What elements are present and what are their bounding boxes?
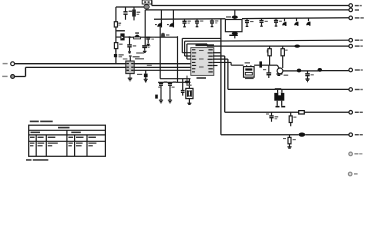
resistor R5 [281, 46, 288, 68]
wire C14/C15 grounds [161, 90, 170, 100]
ferrite bead FB4 [299, 133, 306, 137]
label U1 top [196, 44, 215, 46]
transistor Q4 [294, 18, 298, 26]
IC U1 main [191, 48, 214, 76]
capacitor C13 polarized [137, 70, 148, 82]
connector J12 unused [348, 172, 357, 176]
capacitor C11 [259, 18, 267, 26]
resistor R6 [289, 112, 296, 126]
label C20 value [266, 113, 269, 114]
wire left vertical bus [115, 7, 117, 64]
table subheader A [31, 132, 41, 134]
capacitor C17 series [259, 61, 262, 67]
wire audio out 9 [305, 134, 349, 136]
transistor Q5 [306, 18, 310, 26]
connector J11 unused [349, 152, 363, 156]
IC U2 regulator [126, 55, 134, 73]
capacitor C4 [142, 45, 150, 52]
label L1 value [116, 30, 125, 32]
wire Q6 out [283, 70, 349, 72]
table col heads [30, 137, 96, 138]
capacitor C5 [146, 37, 155, 46]
capacitor C19 to ground [305, 71, 310, 82]
table data row [30, 143, 96, 147]
label U2 note2 [123, 58, 128, 59]
wire RF out to connector [152, 1, 349, 6]
connector J5 [349, 38, 363, 42]
label U1 bottom [197, 77, 207, 79]
ferrite bead FB5 [294, 45, 300, 48]
wire LO cluster rail lower [158, 81, 191, 83]
resistor R2 [114, 43, 122, 53]
capacitor C16 [181, 79, 185, 96]
wire 3V rail to connector [207, 44, 349, 46]
connector J7 [349, 68, 363, 72]
wire rail RX row [154, 18, 349, 20]
capacitor C3 [127, 37, 136, 53]
label R7 value [293, 139, 296, 140]
table header text [58, 127, 70, 129]
capacitor C20 [269, 112, 278, 121]
wire RF rail mid [130, 36, 178, 38]
wire U1 pin to audio bus 1 [213, 19, 299, 135]
capacitor C12 [274, 18, 282, 26]
ground C14 [159, 100, 163, 103]
junction bead on bus [114, 54, 124, 57]
wire osc to mixer [254, 64, 269, 66]
table subheader B [71, 132, 81, 134]
label U2 [133, 56, 144, 59]
wire top-left branch [116, 6, 145, 8]
label Q6 [284, 75, 289, 76]
connector J3 [349, 8, 359, 12]
capacitor C1 [123, 7, 132, 20]
ground C15 [168, 100, 172, 103]
wire left input rail 2 [15, 67, 191, 76]
wire drop right of C6 [177, 36, 179, 82]
connector J6 [349, 44, 363, 48]
wire U1 pin to osc rail [213, 62, 244, 65]
wire left edge drop [144, 10, 146, 46]
capacitor C14 [158, 82, 163, 90]
ferrite bead FB2 [297, 69, 301, 73]
ground U1 left [185, 76, 189, 85]
capacitor C7 [182, 19, 190, 27]
wire U1 pin to audio bus 2 [213, 56, 299, 112]
crystal X2 TCXO [274, 90, 285, 108]
connector J2 [349, 4, 362, 8]
node N1 junction [129, 36, 131, 38]
label X2 [275, 88, 281, 89]
table version box [29, 125, 106, 156]
connector P1 [3, 62, 15, 66]
table note [26, 159, 48, 161]
wire U1 pin stub [213, 65, 218, 67]
antenna connector J1 [142, 0, 152, 4]
capacitor C2 polarized [132, 7, 140, 20]
connector J9 [349, 111, 363, 115]
connector P2 [2, 75, 14, 79]
capacitor C9 [210, 19, 218, 27]
resistor R4 [267, 46, 272, 65]
label C14 value [164, 81, 167, 82]
transistor Q6 [276, 65, 283, 75]
resistor R1 [114, 22, 121, 27]
resistor R7 [283, 135, 292, 148]
wire nest C [187, 44, 207, 59]
wire left input rail 1 [15, 63, 191, 65]
wire nest A [182, 38, 221, 52]
capacitor C18 [266, 65, 271, 78]
wire U1 pin to data rail [213, 59, 349, 89]
transistor Q1 [155, 20, 161, 28]
wire nest B to connector [185, 40, 349, 56]
inductor L2 bead [134, 32, 141, 39]
crystal Y1 [186, 79, 193, 105]
transistor Q2 [167, 20, 173, 28]
wire drop to LO cluster [159, 27, 161, 79]
label X1 [245, 62, 250, 63]
wire stem T1 [160, 10, 162, 20]
connector J4 [349, 16, 364, 20]
label FL1 [226, 16, 231, 17]
ground under U2 [128, 74, 132, 81]
module FL1 shielded filter [225, 11, 242, 39]
label C15 value [173, 81, 176, 82]
wire LO cluster rail upper [160, 78, 190, 80]
capacitor C6 [161, 33, 169, 37]
ferrite bead FB1 [144, 4, 149, 10]
wire U2 out rail [134, 69, 191, 71]
label C18 [263, 69, 266, 70]
wire stem T2 [172, 10, 174, 19]
ferrite bead FB3 [318, 68, 322, 72]
wire rail VCC top [145, 9, 349, 11]
transistor Q3 [282, 18, 286, 26]
diode D1 [116, 33, 130, 40]
connector J8 [349, 88, 363, 92]
capacitor C8 [195, 19, 203, 27]
label rail note [147, 65, 152, 66]
connector J10 [349, 133, 363, 137]
wire audio out 8 [304, 111, 349, 113]
label C19 [311, 74, 314, 75]
capacitor C15 [168, 82, 175, 90]
oscillator X1 module [244, 65, 255, 78]
capacitor C10 [245, 18, 254, 26]
table title [30, 121, 53, 123]
label Y1 [186, 85, 191, 86]
label U2 pin note [136, 52, 144, 53]
fuse F1 [299, 111, 305, 114]
resistor R3 small [155, 95, 158, 99]
wire junction to Q6 [269, 64, 278, 66]
